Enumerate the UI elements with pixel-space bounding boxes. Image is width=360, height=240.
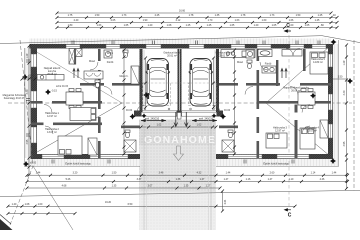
gravel band outer edge lines <box>23 48 25 166</box>
svg-text:5.26: 5.26 <box>66 178 71 181</box>
garage door 2 track lines <box>182 111 217 116</box>
top chain 2 <box>56 14 339 19</box>
svg-text:1.47: 1.47 <box>268 178 273 181</box>
bottom wall window right1 <box>228 155 262 159</box>
garage front wall pier left <box>134 111 142 117</box>
svg-text:1.50: 1.50 <box>296 14 301 17</box>
svg-text:C: C <box>288 213 292 219</box>
bath left: sinks <box>84 71 103 79</box>
gravel band right <box>333 44 339 166</box>
svg-text:2.12: 2.12 <box>176 19 181 22</box>
svg-text:1.05: 1.05 <box>272 24 277 27</box>
svg-text:12.97 m²: 12.97 m² <box>275 130 285 133</box>
svg-text:1.70: 1.70 <box>208 19 213 22</box>
wardrobe X column left <box>69 49 75 65</box>
hip roof diagonal bottom-left <box>32 103 122 155</box>
top chain 3 <box>56 19 339 24</box>
left wall window 1 <box>31 54 37 67</box>
svg-text:1.35: 1.35 <box>184 185 189 188</box>
svg-text:1.20: 1.20 <box>254 24 259 27</box>
garage entry arrow 1 <box>174 112 178 127</box>
svg-text:1.08: 1.08 <box>167 24 172 27</box>
bath right: sinks <box>262 66 276 73</box>
right wall window mid <box>329 94 333 110</box>
svg-text:1.66: 1.66 <box>289 19 294 22</box>
svg-text:4.40: 4.40 <box>26 89 29 94</box>
svg-text:1.08: 1.08 <box>25 203 30 206</box>
svg-text:1.10: 1.10 <box>289 178 294 181</box>
gravel band left <box>25 48 31 158</box>
car 1 garage left <box>146 59 170 107</box>
right wall window top <box>329 54 333 67</box>
wardrobe right bedroom <box>320 120 328 138</box>
svg-text:4.46: 4.46 <box>320 178 325 181</box>
svg-text:Fürdő: Fürdő <box>107 61 114 64</box>
bath2 wall right unit <box>219 126 238 129</box>
svg-text:Épület körüli kavicságy: Épület körüli kavicságy <box>65 163 91 166</box>
wardrobe top-right <box>282 50 302 57</box>
wall x296 right bedrooms divider <box>295 105 298 113</box>
svg-text:3.37: 3.37 <box>137 178 142 181</box>
svg-text:4.68: 4.68 <box>62 185 67 188</box>
svg-text:1.36: 1.36 <box>176 178 181 181</box>
svg-text:1.45: 1.45 <box>315 19 320 22</box>
svg-text:1.29: 1.29 <box>26 53 29 58</box>
right top door arcs <box>286 49 293 56</box>
svg-text:1.00: 1.00 <box>38 203 43 206</box>
svg-text:szél. 240/210: szél. 240/210 <box>199 118 214 121</box>
svg-text:WC 1: WC 1 <box>107 52 114 55</box>
garage floor dashed line <box>143 82 216 84</box>
bottom chain 2 <box>26 178 350 183</box>
bed 1 left unit <box>70 108 96 121</box>
hip roof diagonal top-right <box>266 46 330 103</box>
garage width dim arrow 1 <box>141 120 166 122</box>
roof ridge dashed centerline <box>8 102 352 104</box>
garage side wall left <box>140 49 143 112</box>
kitchen counter right unit <box>221 50 255 58</box>
vertical dim at 222 <box>221 190 227 213</box>
garage door 1 track lines <box>142 111 177 116</box>
wall y101 horizontal living/bedrooms <box>31 101 43 104</box>
svg-text:-0.15: -0.15 <box>51 90 57 93</box>
section line C vertical dash-dot <box>288 29 290 210</box>
driveway dim chain <box>141 126 216 128</box>
svg-text:1.63: 1.63 <box>235 19 240 22</box>
bottom wall right wing <box>216 154 333 159</box>
svg-text:1.35: 1.35 <box>215 14 220 17</box>
garage wall finish lines <box>143 50 145 109</box>
top wall window garage2 <box>189 45 204 49</box>
driveway slope arrow <box>174 146 184 161</box>
kitchen counter left unit <box>37 75 64 81</box>
svg-text:±0.00: ±0.00 <box>126 109 133 112</box>
top wall window left-kitchen <box>66 45 80 49</box>
bottom chain 3 <box>26 185 222 190</box>
window axis ticks above wall <box>72 41 320 45</box>
left wall window 2 <box>31 91 37 108</box>
svg-text:1.60: 1.60 <box>262 19 267 22</box>
chimney arrows <box>73 69 75 79</box>
svg-text:±0.00: ±0.00 <box>30 162 37 165</box>
svg-text:1.50: 1.50 <box>95 14 100 17</box>
car clearance dashed box 1 <box>143 83 171 106</box>
shower right unit <box>222 140 234 152</box>
svg-text:14.80 m²: 14.80 m² <box>313 61 323 64</box>
svg-text:1.73: 1.73 <box>270 14 275 17</box>
wall y83 right <box>219 83 238 86</box>
svg-text:26.08 m²: 26.08 m² <box>47 73 57 76</box>
svg-text:1.73: 1.73 <box>122 14 127 17</box>
interior dim string left corridor <box>123 50 125 155</box>
svg-text:6.50: 6.50 <box>128 203 133 206</box>
svg-text:2.25: 2.25 <box>155 14 160 17</box>
bathtub right unit <box>258 50 272 57</box>
svg-text:16.20: 16.20 <box>105 201 112 204</box>
toilet bath2 left <box>125 130 130 133</box>
top wall window bath2 <box>231 45 245 49</box>
svg-text:Mosó: Mosó <box>237 61 244 64</box>
bottom chain 5 <box>7 212 77 215</box>
wall x256 vertical <box>257 49 260 61</box>
toilet bath2 right <box>228 130 233 133</box>
svg-text:1.78: 1.78 <box>189 14 194 17</box>
svg-text:szint ±0.15: szint ±0.15 <box>56 85 69 88</box>
svg-text:1.00: 1.00 <box>289 24 294 27</box>
car 2 garage right <box>189 59 213 107</box>
svg-text:1.78: 1.78 <box>241 14 246 17</box>
left plot boundary dashed <box>8 40 33 230</box>
bottom wall window left-bedroom <box>90 155 128 159</box>
svg-text:3.20: 3.20 <box>73 172 78 175</box>
garage rail posts <box>144 108 146 110</box>
svg-text:±0.00: ±0.00 <box>224 109 231 112</box>
bottom plot boundary sloping line <box>0 190 360 196</box>
interior dim string right corridor <box>234 50 236 155</box>
svg-text:Fürdő: Fürdő <box>265 63 272 66</box>
gravel band top <box>29 39 331 45</box>
left wall window 3 <box>31 127 37 143</box>
top wall window tub <box>257 45 271 49</box>
svg-text:1.50: 1.50 <box>338 76 343 79</box>
wc left unit <box>123 50 128 53</box>
left wall window axis ticks <box>26 60 30 136</box>
svg-text:13.07 m²: 13.07 m² <box>307 130 317 133</box>
bottom-left corner hatch <box>0 219 13 230</box>
right plot boundary dashed <box>353 40 355 191</box>
svg-text:1.63: 1.63 <box>97 24 102 27</box>
toilet left <box>95 80 100 83</box>
svg-text:1.80: 1.80 <box>68 24 73 27</box>
svg-text:1.40: 1.40 <box>12 203 17 206</box>
terrain line sloping across top <box>0 36 360 44</box>
garage front wall pier right <box>217 111 224 117</box>
top exterior wall <box>30 44 332 49</box>
top wall window bed-right <box>290 45 304 49</box>
svg-text:4.40: 4.40 <box>343 90 346 95</box>
door arcs <box>104 87 112 95</box>
garage width dim arrow 2 <box>192 120 217 122</box>
svg-text:13.07 m²: 13.07 m² <box>47 131 57 134</box>
svg-text:12.97 m²: 12.97 m² <box>47 115 57 118</box>
car tires <box>148 64 210 99</box>
bed 2 left unit <box>58 136 82 155</box>
garage interior dim chain right <box>213 58 215 108</box>
svg-text:1.75: 1.75 <box>68 14 73 17</box>
dining table left <box>66 92 83 105</box>
svg-text:1.35: 1.35 <box>112 185 117 188</box>
driveway gray dotted apron <box>139 120 216 231</box>
bath2 wall left unit <box>121 126 140 129</box>
svg-text:Kavicságy 43-8 47: Kavicságy 43-8 47 <box>4 97 25 100</box>
gravel band bottom left wing <box>27 159 140 166</box>
svg-text:1.44: 1.44 <box>332 172 337 175</box>
svg-text:1.20: 1.20 <box>148 24 153 27</box>
right exterior wall <box>328 44 333 159</box>
svg-text:szél. 240/210: szél. 240/210 <box>145 118 160 121</box>
svg-text:1.29: 1.29 <box>343 60 346 65</box>
wall y122 bedrooms divider <box>31 123 44 126</box>
svg-text:2.05: 2.05 <box>111 19 116 22</box>
svg-text:1.25: 1.25 <box>318 14 323 17</box>
svg-text:4.95: 4.95 <box>343 141 346 146</box>
svg-text:1.50: 1.50 <box>112 172 117 175</box>
bottom wall window right2 <box>277 155 309 159</box>
left exterior wall <box>31 44 38 158</box>
top wall window bath1 <box>106 45 120 49</box>
wardrobe left bedroom2 <box>88 138 97 155</box>
hip roof diagonal top-left <box>30 48 122 103</box>
right wall window bottom <box>329 124 333 138</box>
svg-text:1.47: 1.47 <box>224 178 229 181</box>
svg-text:1.90: 1.90 <box>143 19 148 22</box>
car clearance dashed box 2 <box>188 83 216 106</box>
svg-text:1.47: 1.47 <box>200 178 205 181</box>
svg-text:Mosó: Mosó <box>89 60 96 63</box>
shelving against garage wall <box>131 66 139 84</box>
wall x98 lower vertical <box>98 101 101 109</box>
garage side wall right <box>216 49 219 112</box>
bottom chain 1 <box>26 172 350 177</box>
wall x98 vertical <box>98 49 101 61</box>
svg-text:16.66: 16.66 <box>179 10 186 13</box>
svg-text:1.65: 1.65 <box>124 24 129 27</box>
svg-text:Épület körüli kavicságy: Épület körüli kavicságy <box>263 163 289 166</box>
plot width line 16.20 <box>7 201 297 208</box>
driveway edge double lines <box>145 120 147 230</box>
wall x303 top-right bedroom <box>303 49 306 71</box>
bed top-right bedroom <box>310 52 328 74</box>
svg-text:20.61 m²: 20.61 m² <box>167 55 177 58</box>
svg-text:4.32: 4.32 <box>197 172 202 175</box>
wall x256 lower <box>257 101 260 109</box>
svg-text:3.04: 3.04 <box>224 199 227 204</box>
left lower boundary diagonal <box>33 166 73 230</box>
center pier column box <box>177 113 181 120</box>
svg-text:1.65: 1.65 <box>230 24 235 27</box>
top wall window garage1 <box>146 45 161 49</box>
wall x276 short <box>276 60 278 86</box>
svg-text:4.95: 4.95 <box>26 139 29 144</box>
bottom wall window left-living <box>42 155 64 159</box>
top wall window bed-right2 <box>312 45 326 49</box>
toilet right <box>247 60 252 63</box>
hip roof diagonal bottom-right <box>266 103 330 156</box>
wall x80 bath left <box>74 49 77 65</box>
top chain overall <box>56 10 333 15</box>
svg-text:1.44: 1.44 <box>36 172 41 175</box>
svg-text:2.60: 2.60 <box>270 172 275 175</box>
wall y101 right <box>257 101 303 104</box>
shower left unit <box>124 140 136 152</box>
svg-text:20.61 m²: 20.61 m² <box>219 55 229 58</box>
svg-text:1.02: 1.02 <box>197 124 202 127</box>
svg-text:26.08 m²: 26.08 m² <box>291 90 301 93</box>
washer left <box>104 50 112 58</box>
garage entry arrow 2 <box>185 112 189 127</box>
svg-text:1.44: 1.44 <box>226 172 231 175</box>
svg-text:1.25: 1.25 <box>207 24 212 27</box>
bottom wall window axis ticks <box>52 160 294 164</box>
garage interior dim chain left <box>145 58 147 108</box>
garage front wall pier center <box>177 111 182 117</box>
bottom wall left wing <box>31 154 141 159</box>
bed 4 right unit <box>300 128 315 149</box>
svg-text:1.16: 1.16 <box>246 178 251 181</box>
svg-text:1.02: 1.02 <box>157 124 162 127</box>
top chain 4 <box>56 24 339 29</box>
svg-text:3.07: 3.07 <box>148 185 153 188</box>
svg-text:2.40: 2.40 <box>74 19 79 22</box>
garage center wall <box>178 49 182 112</box>
bed 3 right unit <box>266 133 287 148</box>
gravel band bottom right wing <box>216 159 334 166</box>
svg-text:3.46: 3.46 <box>159 172 164 175</box>
chimney arrows right <box>281 69 283 79</box>
wall y83 horizontal bath <box>80 83 104 86</box>
svg-text:1.14: 1.14 <box>311 172 316 175</box>
dining table right <box>298 92 315 105</box>
svg-text:1.27: 1.27 <box>206 185 211 188</box>
svg-text:1.05: 1.05 <box>305 24 310 27</box>
svg-text:1.25: 1.25 <box>186 24 191 27</box>
washer right <box>246 50 254 58</box>
svg-text:GONAHOME: GONAHOME <box>144 134 216 146</box>
